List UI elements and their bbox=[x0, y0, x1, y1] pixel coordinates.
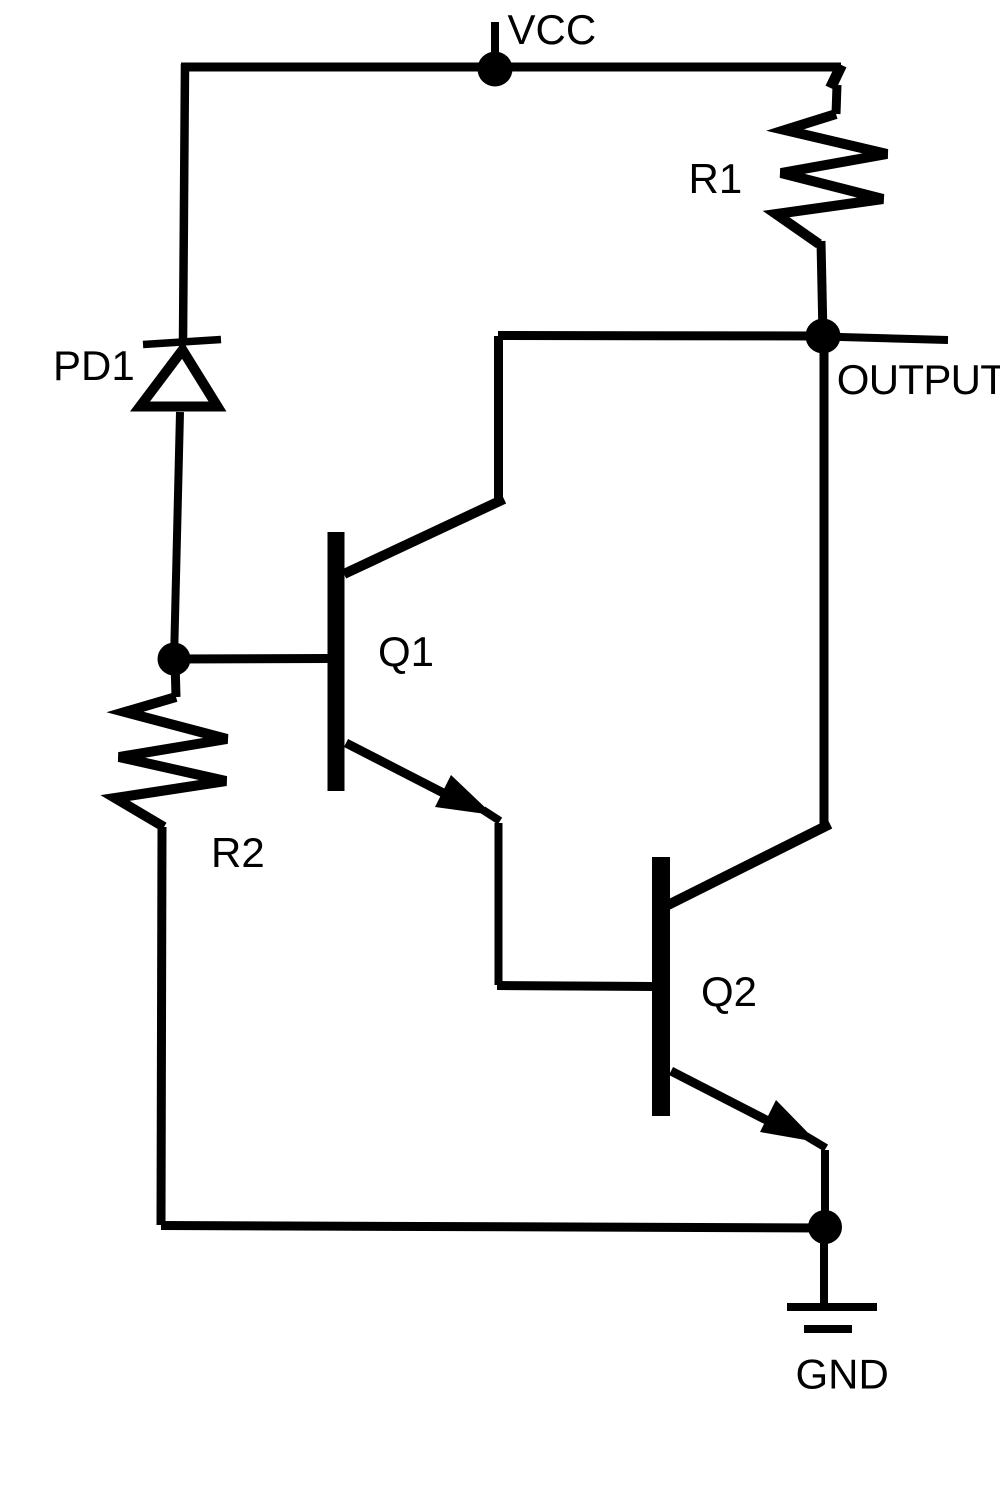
svg-text:PD1: PD1 bbox=[53, 342, 135, 389]
svg-text:Q1: Q1 bbox=[378, 628, 434, 675]
svg-text:R1: R1 bbox=[689, 155, 743, 202]
svg-text:R2: R2 bbox=[211, 829, 265, 876]
svg-text:VCC: VCC bbox=[508, 6, 597, 53]
svg-text:Q2: Q2 bbox=[701, 968, 757, 1015]
svg-text:GND: GND bbox=[796, 1351, 889, 1398]
svg-text:OUTPUT: OUTPUT bbox=[837, 356, 1000, 403]
